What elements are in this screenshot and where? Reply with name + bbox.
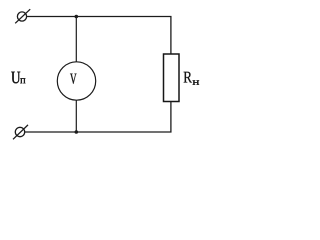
wire top horizontal with corner down to resistor <box>27 17 171 55</box>
wire voltmeter top lead <box>75 17 77 62</box>
node junction top <box>75 15 79 19</box>
voltmeter label V <box>70 74 76 84</box>
wire voltmeter bottom lead <box>75 100 77 132</box>
label Rн <box>184 72 192 83</box>
voltmeter PV1 <box>57 62 95 100</box>
terminal X1 (top input) <box>15 9 30 23</box>
resistor Rн body <box>164 54 180 102</box>
node junction bottom <box>75 130 79 134</box>
label Uп (supply voltage) <box>11 72 20 84</box>
wire resistor bottom lead and bottom horizontal <box>25 102 171 133</box>
terminal X2 (bottom input) <box>13 125 28 139</box>
